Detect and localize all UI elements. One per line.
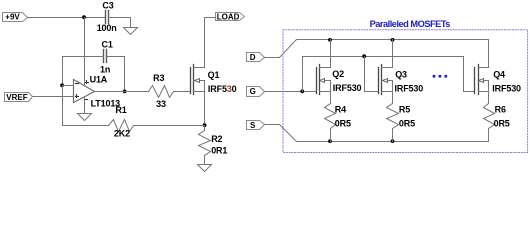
wire Q1 source down bbox=[204, 92, 206, 126]
wire Q3 drain lead bbox=[392, 40, 394, 68]
svg-text:VREF: VREF bbox=[6, 93, 27, 102]
flag VREF bbox=[5, 93, 33, 102]
wire gate rail bbox=[303, 57, 475, 92]
wire R3 to Q1 gate bbox=[174, 91, 191, 93]
wire VREF to non-inverting input bbox=[33, 96, 74, 98]
capacitor C3 bbox=[97, 0, 117, 33]
node R5 bottom bbox=[391, 139, 395, 143]
node output junction bbox=[123, 90, 127, 94]
svg-text:R1: R1 bbox=[115, 105, 126, 115]
svg-text:Q3: Q3 bbox=[395, 70, 407, 80]
svg-text:R5: R5 bbox=[399, 105, 410, 115]
wire output to R3 bbox=[95, 91, 149, 93]
svg-text:IRF530: IRF530 bbox=[333, 83, 362, 93]
wire S rail bbox=[265, 125, 489, 142]
resistor R1 bbox=[109, 105, 134, 139]
svg-text:S: S bbox=[250, 121, 256, 130]
resistor R3 bbox=[149, 73, 174, 109]
svg-text:Q2: Q2 bbox=[332, 69, 344, 79]
wire C3 to ground bbox=[109, 18, 131, 28]
wire R1 to Q1 source bbox=[134, 125, 205, 127]
svg-text:LOAD: LOAD bbox=[217, 12, 240, 21]
transistor Q3 bbox=[379, 65, 424, 95]
svg-text:2K2: 2K2 bbox=[114, 129, 130, 139]
node Q3 drain bbox=[391, 38, 395, 42]
wire Q2 drain lead bbox=[330, 40, 332, 68]
svg-text:IRF530: IRF530 bbox=[208, 84, 237, 94]
transistor Q4 bbox=[475, 65, 522, 95]
wire inverting input bbox=[63, 85, 74, 87]
wire V+ drop to op-amp bbox=[84, 18, 86, 86]
resistor R6 bbox=[484, 104, 510, 129]
wire Q4 source to R6 bbox=[488, 92, 490, 104]
wire G to Q2 gate bbox=[265, 91, 317, 93]
svg-text:33: 33 bbox=[156, 99, 166, 109]
flag LOAD bbox=[216, 12, 245, 21]
wire D to drain rail bbox=[265, 40, 489, 68]
svg-text:Paralleled MOSFETs: Paralleled MOSFETs bbox=[370, 19, 451, 29]
capacitor C1 bbox=[100, 40, 113, 75]
svg-text:IRF530: IRF530 bbox=[395, 83, 424, 93]
transistor Q2 bbox=[317, 65, 362, 95]
node Q3 gate tap bbox=[362, 54, 366, 58]
node ellipsis dots bbox=[433, 75, 448, 78]
svg-text:G: G bbox=[250, 87, 256, 96]
svg-text:C3: C3 bbox=[102, 0, 113, 10]
resistor R4 bbox=[325, 104, 352, 142]
wire C1 to output bbox=[108, 57, 125, 92]
node junction +9V/V+ bbox=[82, 15, 86, 19]
resistor R5 bbox=[387, 104, 416, 142]
flag S bbox=[247, 121, 265, 130]
node Q2 drain bbox=[328, 38, 332, 42]
svg-text:R2: R2 bbox=[211, 134, 222, 144]
svg-text:R6: R6 bbox=[495, 105, 506, 115]
wire feedback left (inverting input to C1) bbox=[63, 57, 104, 86]
node inverting input junction bbox=[60, 83, 64, 87]
node Q1 source junction bbox=[203, 123, 207, 127]
wire Q3 gate drop bbox=[365, 57, 379, 92]
ground (op-amp V-) bbox=[78, 114, 92, 121]
flag D bbox=[247, 53, 265, 62]
flag +9V bbox=[3, 13, 28, 22]
transistor Q1 bbox=[191, 65, 237, 95]
op-amp U1A bbox=[74, 75, 121, 109]
svg-text:100n: 100n bbox=[97, 23, 117, 33]
svg-text:0R5: 0R5 bbox=[399, 118, 415, 128]
resistor R2 bbox=[199, 126, 228, 165]
node paralleled MOSFETs box bbox=[283, 19, 528, 153]
svg-text:+9V: +9V bbox=[5, 13, 20, 22]
svg-text:0R1: 0R1 bbox=[211, 146, 227, 156]
wire Q1 drain to LOAD bbox=[205, 18, 216, 68]
svg-text:R4: R4 bbox=[335, 105, 346, 115]
wire Q3 source to R5 bbox=[392, 92, 394, 104]
ground (R2) bbox=[198, 165, 212, 172]
svg-text:C1: C1 bbox=[102, 40, 113, 50]
svg-text:U1A: U1A bbox=[90, 75, 108, 85]
svg-text:IRF530: IRF530 bbox=[492, 83, 521, 93]
ground (C3) bbox=[124, 28, 138, 35]
svg-text:Q1: Q1 bbox=[208, 70, 220, 80]
wire Q2 source to R4 bbox=[330, 92, 332, 104]
wire +9V rail bbox=[28, 17, 105, 19]
node G junction bbox=[300, 89, 304, 93]
svg-text:Q4: Q4 bbox=[493, 70, 505, 80]
svg-text:0R5: 0R5 bbox=[335, 118, 351, 128]
node R4 bottom bbox=[328, 139, 332, 143]
svg-text:1n: 1n bbox=[100, 65, 110, 75]
wire feedback down to R1 bbox=[63, 86, 109, 126]
wire V- to ground bbox=[84, 98, 86, 114]
svg-text:D: D bbox=[250, 53, 256, 62]
svg-text:R3: R3 bbox=[153, 73, 164, 83]
svg-text:0R5: 0R5 bbox=[494, 118, 510, 128]
flag G bbox=[247, 87, 265, 97]
